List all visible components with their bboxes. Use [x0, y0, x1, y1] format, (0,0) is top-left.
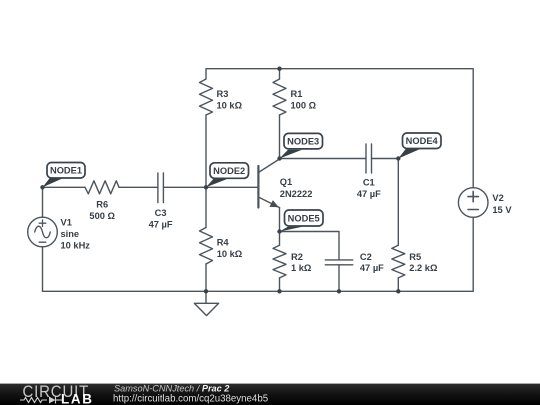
- capacitor C3: [158, 173, 164, 203]
- svg-text:NODE5: NODE5: [288, 213, 320, 223]
- wire: V1 bottom to rail: [42, 247, 44, 291]
- transistor Q1 base bar: [257, 166, 259, 208]
- node NODE2 junction dot: [204, 185, 208, 189]
- voltage source V1 circle: [28, 217, 58, 247]
- svg-text:R3: R3: [217, 89, 229, 99]
- wire: bottom rail: [43, 290, 474, 292]
- voltage source V2 circle: [458, 188, 488, 218]
- svg-text:V2: V2: [492, 193, 503, 203]
- svg-text:http://circuitlab.com/cq2u38ey: http://circuitlab.com/cq2u38eyne4b5: [113, 394, 268, 405]
- node NODE3 junction dot: [277, 156, 281, 160]
- svg-text:R6: R6: [96, 199, 108, 209]
- svg-text:NODE3: NODE3: [287, 137, 319, 147]
- wire: node1 down to V1 top: [42, 187, 44, 217]
- wire: node2 to R4 top: [205, 187, 207, 227]
- svg-text:NODE1: NODE1: [50, 166, 82, 176]
- svg-text:R4: R4: [217, 237, 230, 247]
- svg-text:Q1: Q1: [280, 177, 292, 187]
- junction: top rail / R1: [277, 67, 281, 71]
- capacitor C2: [325, 260, 353, 265]
- wire: C1 right plate to node4: [372, 158, 399, 160]
- svg-text:NODE4: NODE4: [406, 136, 439, 146]
- footer title text: [113, 384, 268, 405]
- svg-text:LAB: LAB: [61, 392, 94, 405]
- junction: bottom rail / ground: [204, 289, 208, 293]
- node label NODE5: [280, 210, 324, 232]
- junction: bottom rail / C2: [337, 289, 341, 293]
- svg-text:47 µF: 47 µF: [149, 219, 173, 229]
- svg-text:R2: R2: [291, 252, 303, 262]
- transistor Q1 emitter diagonal: [258, 197, 279, 208]
- svg-text:500 Ω: 500 Ω: [89, 211, 115, 221]
- node label NODE2: [206, 163, 249, 188]
- transistor Q1 collector diagonal: [258, 159, 279, 173]
- svg-text:100 Ω: 100 Ω: [291, 100, 317, 110]
- junction: bottom rail / R2: [277, 289, 281, 293]
- wire: top rail from R3 top to V2 column: [206, 69, 473, 188]
- svg-text:10 kΩ: 10 kΩ: [217, 100, 243, 110]
- wire: node5 to C2 top: [280, 232, 340, 260]
- wire: node3 to C1 left plate: [280, 158, 367, 160]
- resistor R6: [85, 181, 119, 194]
- capacitor C1: [366, 144, 372, 173]
- svg-text:C2: C2: [360, 252, 372, 262]
- ground symbol: [194, 291, 218, 315]
- node NODE5 junction dot: [277, 229, 281, 233]
- wire: C3 right plate through node2 to Q1 base: [163, 186, 258, 188]
- V1 minus sign: [39, 241, 46, 243]
- wire: node5 to R2 top: [279, 232, 281, 246]
- svg-text:C3: C3: [155, 208, 167, 218]
- node label NODE3: [280, 133, 323, 158]
- svg-text:47 µF: 47 µF: [357, 189, 381, 199]
- wire: C2 bottom to rail: [338, 265, 340, 292]
- svg-text:10 kΩ: 10 kΩ: [217, 249, 243, 259]
- junction: bottom rail / R5: [396, 289, 400, 293]
- svg-text:sine: sine: [61, 229, 80, 239]
- resistor R5: [392, 245, 405, 278]
- resistor R4: [200, 228, 213, 265]
- resistor R3: [200, 79, 213, 115]
- wire: R3 bottom to node2: [205, 115, 207, 187]
- V1 plus sign: [39, 220, 46, 227]
- node NODE1 junction dot: [40, 185, 44, 189]
- transistor Q1 emitter arrowhead: [270, 200, 279, 207]
- svg-text:15 V: 15 V: [492, 205, 512, 215]
- svg-text:R1: R1: [291, 89, 303, 99]
- wire: node4 down to R5 top: [397, 159, 399, 246]
- node label NODE4: [398, 133, 441, 159]
- V1 sine symbol: [35, 226, 51, 238]
- wire: R1 bottom to node3: [279, 115, 281, 159]
- wire: R1 top stub from top rail: [279, 69, 281, 79]
- wire: emitter to node5: [279, 208, 281, 232]
- CircuitLab logo wordmark: [23, 383, 94, 405]
- wire: R4 bottom to ground rail: [205, 264, 207, 291]
- resistor R1: [273, 79, 286, 115]
- CircuitLab logo resistor+diode glyph: [20, 397, 62, 404]
- wire: R2 bottom to rail: [279, 278, 281, 291]
- node NODE4 junction dot: [396, 156, 400, 160]
- wire: V2 bottom to rail: [472, 217, 474, 291]
- svg-text:47 µF: 47 µF: [360, 263, 384, 273]
- svg-text:10 kHz: 10 kHz: [61, 240, 91, 250]
- svg-text:2.2 kΩ: 2.2 kΩ: [409, 263, 438, 273]
- svg-text:NODE2: NODE2: [213, 166, 245, 176]
- wire: R5 bottom to rail: [397, 278, 399, 291]
- svg-text:R5: R5: [409, 252, 421, 262]
- svg-text:SamsoN-CNNJtech / Prac 2: SamsoN-CNNJtech / Prac 2: [114, 384, 230, 394]
- resistor R2: [273, 245, 286, 278]
- wire: R6 right to C3 left plate: [119, 186, 158, 188]
- svg-text:1 kΩ: 1 kΩ: [291, 263, 312, 273]
- svg-text:C1: C1: [363, 178, 375, 188]
- V2 minus sign: [468, 209, 478, 211]
- wire: node1 to R6 left: [43, 186, 86, 188]
- svg-text:V1: V1: [61, 218, 72, 228]
- node label NODE1: [43, 163, 86, 188]
- V2 plus sign: [468, 191, 478, 201]
- svg-text:2N2222: 2N2222: [280, 189, 313, 199]
